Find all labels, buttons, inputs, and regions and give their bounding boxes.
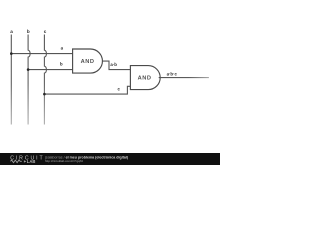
CircuitLab logo resistor zigzag — [10, 160, 21, 163]
svg-text:a·b·c: a·b·c — [167, 71, 178, 76]
wire: U2 output net a·b·c — [159, 77, 209, 79]
wire: vertical net b (hop over wire1) — [28, 35, 30, 125]
wire: c to gate U2 input 2 — [44, 86, 130, 94]
wire: a to gate U1 input 1 — [11, 53, 72, 55]
wire: U1 output to U2 input 1 — [103, 61, 131, 70]
svg-text:b: b — [27, 29, 30, 34]
junction on net c — [43, 93, 46, 96]
svg-text:c: c — [44, 29, 47, 34]
AND gate U1 — [73, 49, 103, 73]
wire: vertical net a — [10, 35, 12, 125]
svg-text:a: a — [10, 29, 13, 34]
svg-text:AND: AND — [81, 59, 95, 65]
wire: vertical net c (hops over wire1 and wire2) — [44, 35, 46, 125]
svg-text:a·b: a·b — [110, 62, 117, 67]
wire: b to gate U1 input 2 — [28, 69, 73, 71]
svg-text:http://circuitlab.com/c/7rgq6z: http://circuitlab.com/c/7rgq6z — [45, 159, 84, 163]
svg-text:LAB: LAB — [27, 159, 36, 164]
AND gate U2 — [130, 66, 160, 90]
junction on net a — [10, 52, 13, 55]
svg-text:b: b — [60, 61, 63, 66]
junction on net b — [27, 68, 30, 71]
CircuitLab logo arrow — [24, 160, 27, 162]
footer bar — [0, 153, 220, 165]
svg-text:AND: AND — [138, 76, 152, 82]
